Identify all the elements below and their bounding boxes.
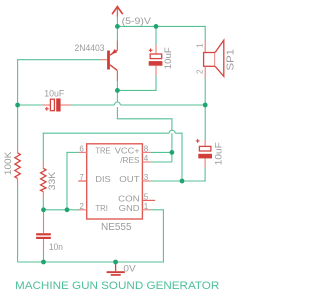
pin 1 stub <box>142 209 150 211</box>
wire: V+ top rail <box>117 25 205 27</box>
pin number 5 <box>144 193 149 202</box>
label 100K (rotated) <box>3 151 14 175</box>
pin number 6 <box>79 145 84 154</box>
label 2N4403 <box>75 43 105 53</box>
capacitor C3 10uF (vertical, right) <box>196 139 212 168</box>
svg-text:VCC+: VCC+ <box>115 146 140 156</box>
wire: junction down to cap2 top <box>204 105 206 141</box>
wire: pin4 wire and riser <box>150 152 172 162</box>
pin number 1 (speaker, rotated) <box>196 43 205 48</box>
wire: speaker pin2 down to junction <box>204 78 206 105</box>
wire: y=89.7 emitter junction to cap1 <box>117 89 156 91</box>
wire: bus y=105 hop to speaker junction <box>120 104 205 106</box>
label 33K (rotated) <box>47 171 58 190</box>
wire hop over vertical at x=171.9 <box>169 130 175 133</box>
pin name DIS <box>95 174 111 184</box>
svg-text:1: 1 <box>144 202 149 211</box>
pin name TRI <box>95 203 108 213</box>
svg-text:10uF: 10uF <box>44 89 64 100</box>
pin number 8 <box>144 145 149 154</box>
junction (V+ / transistor emitter) <box>115 24 120 29</box>
emitter arrowhead <box>111 49 117 54</box>
junction (33K / 10n / TRI) <box>41 207 46 212</box>
capacitor C4 10n <box>36 210 51 252</box>
svg-text:2N4403: 2N4403 <box>75 43 105 53</box>
wire: 33K bottom to junction <box>42 199 44 210</box>
svg-text:33K: 33K <box>47 171 58 190</box>
pin name CON <box>118 194 140 204</box>
base pin wire <box>101 59 108 61</box>
pin number 1 <box>144 202 149 211</box>
svg-text:8: 8 <box>144 145 149 154</box>
label NE555 <box>101 222 132 233</box>
wire: VCC vertical x=171.9 <box>171 118 173 152</box>
svg-text:4: 4 <box>144 154 149 163</box>
svg-text:NE555: NE555 <box>101 222 132 233</box>
wire: TRE-TRI vertical x=67 <box>66 152 68 210</box>
plus sign <box>149 49 153 51</box>
wire: GND riser x=163.4 <box>162 210 164 263</box>
capacitor C2 10uF (vertical, top middle) <box>149 45 163 76</box>
pin number 4 <box>144 154 149 163</box>
IC U1 NE555 body <box>87 144 143 219</box>
pin 2 stub <box>79 209 87 211</box>
wire: bottom ground rail <box>18 261 164 263</box>
wire: cap1 bottom vertical <box>155 75 157 92</box>
svg-text:0V: 0V <box>123 263 135 273</box>
svg-text:3: 3 <box>144 173 149 182</box>
pin name OUT <box>119 174 139 184</box>
pin number 2 <box>79 202 84 211</box>
wire: 10n bottom to ground rail <box>43 251 45 262</box>
wire: 33K top riser x=43.3 <box>42 133 44 163</box>
junction (pin8 / pin4 / VCC riser) <box>170 150 175 155</box>
pin 4 stub <box>142 161 150 163</box>
capacitor C1 10uF (horizontal, left) <box>43 98 71 111</box>
junction (V+ / cap C2 top) <box>154 24 159 29</box>
junction (collector / cap C2 bottom) <box>115 88 120 93</box>
junction (left rail / cap C1) <box>15 103 20 108</box>
svg-text:1: 1 <box>196 43 205 48</box>
pin number 7 <box>79 173 84 182</box>
pin 5 stub (unconnected) <box>142 199 155 201</box>
svg-text:/RES: /RES <box>120 155 140 165</box>
wire hop over vertical at x=117.4 <box>114 102 120 105</box>
resistor R1 100K <box>15 145 20 186</box>
svg-text:2: 2 <box>196 69 205 74</box>
label SP1 (rotated) <box>225 49 236 71</box>
svg-text:2: 2 <box>79 202 84 211</box>
svg-text:7: 7 <box>79 173 84 182</box>
wire: cap2 bottom riser <box>204 167 206 182</box>
title MACHINE GUN SOUND GENERATOR <box>15 280 219 292</box>
wire: y=133.2 horizontal right part <box>175 132 182 134</box>
collector pin vertical <box>116 71 118 81</box>
plus sign <box>45 108 49 110</box>
wire: OUT riser x=181.4 <box>181 133 183 181</box>
pin name /RES <box>120 155 140 165</box>
svg-text:OUT: OUT <box>119 174 139 184</box>
svg-text:TRI: TRI <box>95 203 108 213</box>
pin 3 stub <box>142 180 150 182</box>
pin 7 stub <box>78 180 86 182</box>
emitter diagonal <box>110 50 117 55</box>
label 0V <box>123 263 135 273</box>
wire: OUT pin3 horizontal <box>150 180 205 182</box>
wire: pin8 stub wire <box>150 151 172 153</box>
junction (10n / ground rail) <box>41 260 46 265</box>
pin number 2 (speaker, rotated) <box>196 69 205 74</box>
wire: pin6 TRE stub wire <box>67 151 79 153</box>
svg-text:(5-9)V: (5-9)V <box>122 16 152 27</box>
power symbol (5-9)V arrow <box>112 7 123 17</box>
wire: y=133.2 horizontal left part <box>43 132 170 134</box>
wire: y=118.8 horizontal <box>117 118 172 120</box>
wire: bus y=105 left of cap <box>18 104 43 106</box>
wire: collector net vertical x=117.4 <box>116 81 118 119</box>
wire: left rail vertical from base corner down <box>17 60 19 262</box>
pin number 3 <box>144 173 149 182</box>
wire: bus y=105 cap to hop <box>70 104 114 106</box>
junction (TRI row / TRE riser) <box>65 207 70 212</box>
svg-text:MACHINE GUN SOUND GENERATOR: MACHINE GUN SOUND GENERATOR <box>15 280 219 292</box>
svg-text:10n: 10n <box>49 242 63 252</box>
label 10uF (top cap, rotated) <box>163 47 174 69</box>
plus sign <box>196 140 200 142</box>
pin name GND <box>119 203 140 213</box>
ground symbol 0V <box>107 262 125 276</box>
wire: TRI row y=209.8 <box>44 209 79 211</box>
label 10n <box>49 242 63 252</box>
pin 8 stub <box>142 151 150 153</box>
pin name TRE <box>95 146 111 156</box>
svg-text:DIS: DIS <box>95 174 111 184</box>
label 10uF (right cap, rotated) <box>213 142 224 165</box>
svg-text:10uF: 10uF <box>163 47 174 69</box>
emitter pin vertical <box>116 41 118 50</box>
speaker SP1 <box>204 40 224 78</box>
wire: pin1 GND stub wire <box>150 209 164 211</box>
wire: speaker top drop from rail <box>204 26 206 40</box>
junction (speaker / cap C3 / bus) <box>203 103 208 108</box>
svg-text:TRE: TRE <box>95 146 111 156</box>
label (5-9)V <box>122 16 152 27</box>
pin 6 stub <box>79 151 87 153</box>
wire: emitter drop from rail <box>116 26 118 41</box>
svg-text:5: 5 <box>144 193 149 202</box>
transistor Q1 2N4403 <box>101 41 118 81</box>
wire: cap1 top vertical from rail <box>155 26 157 45</box>
wire: power symbol stem green part <box>116 16 118 26</box>
resistor R2 33K <box>41 162 46 199</box>
junction (OUT / 33K riser) <box>180 179 185 184</box>
label 10uF (left cap) <box>44 89 64 100</box>
collector diagonal <box>110 65 117 71</box>
base bar <box>107 51 110 70</box>
pin name VCC+ <box>115 146 140 156</box>
svg-text:6: 6 <box>79 145 84 154</box>
svg-text:SP1: SP1 <box>225 49 236 71</box>
svg-text:100K: 100K <box>3 151 14 175</box>
svg-text:GND: GND <box>119 203 140 213</box>
svg-text:10uF: 10uF <box>213 142 224 165</box>
junction (ground rail / 0V symbol) <box>113 260 118 265</box>
wire: base wire horizontal <box>17 59 101 61</box>
